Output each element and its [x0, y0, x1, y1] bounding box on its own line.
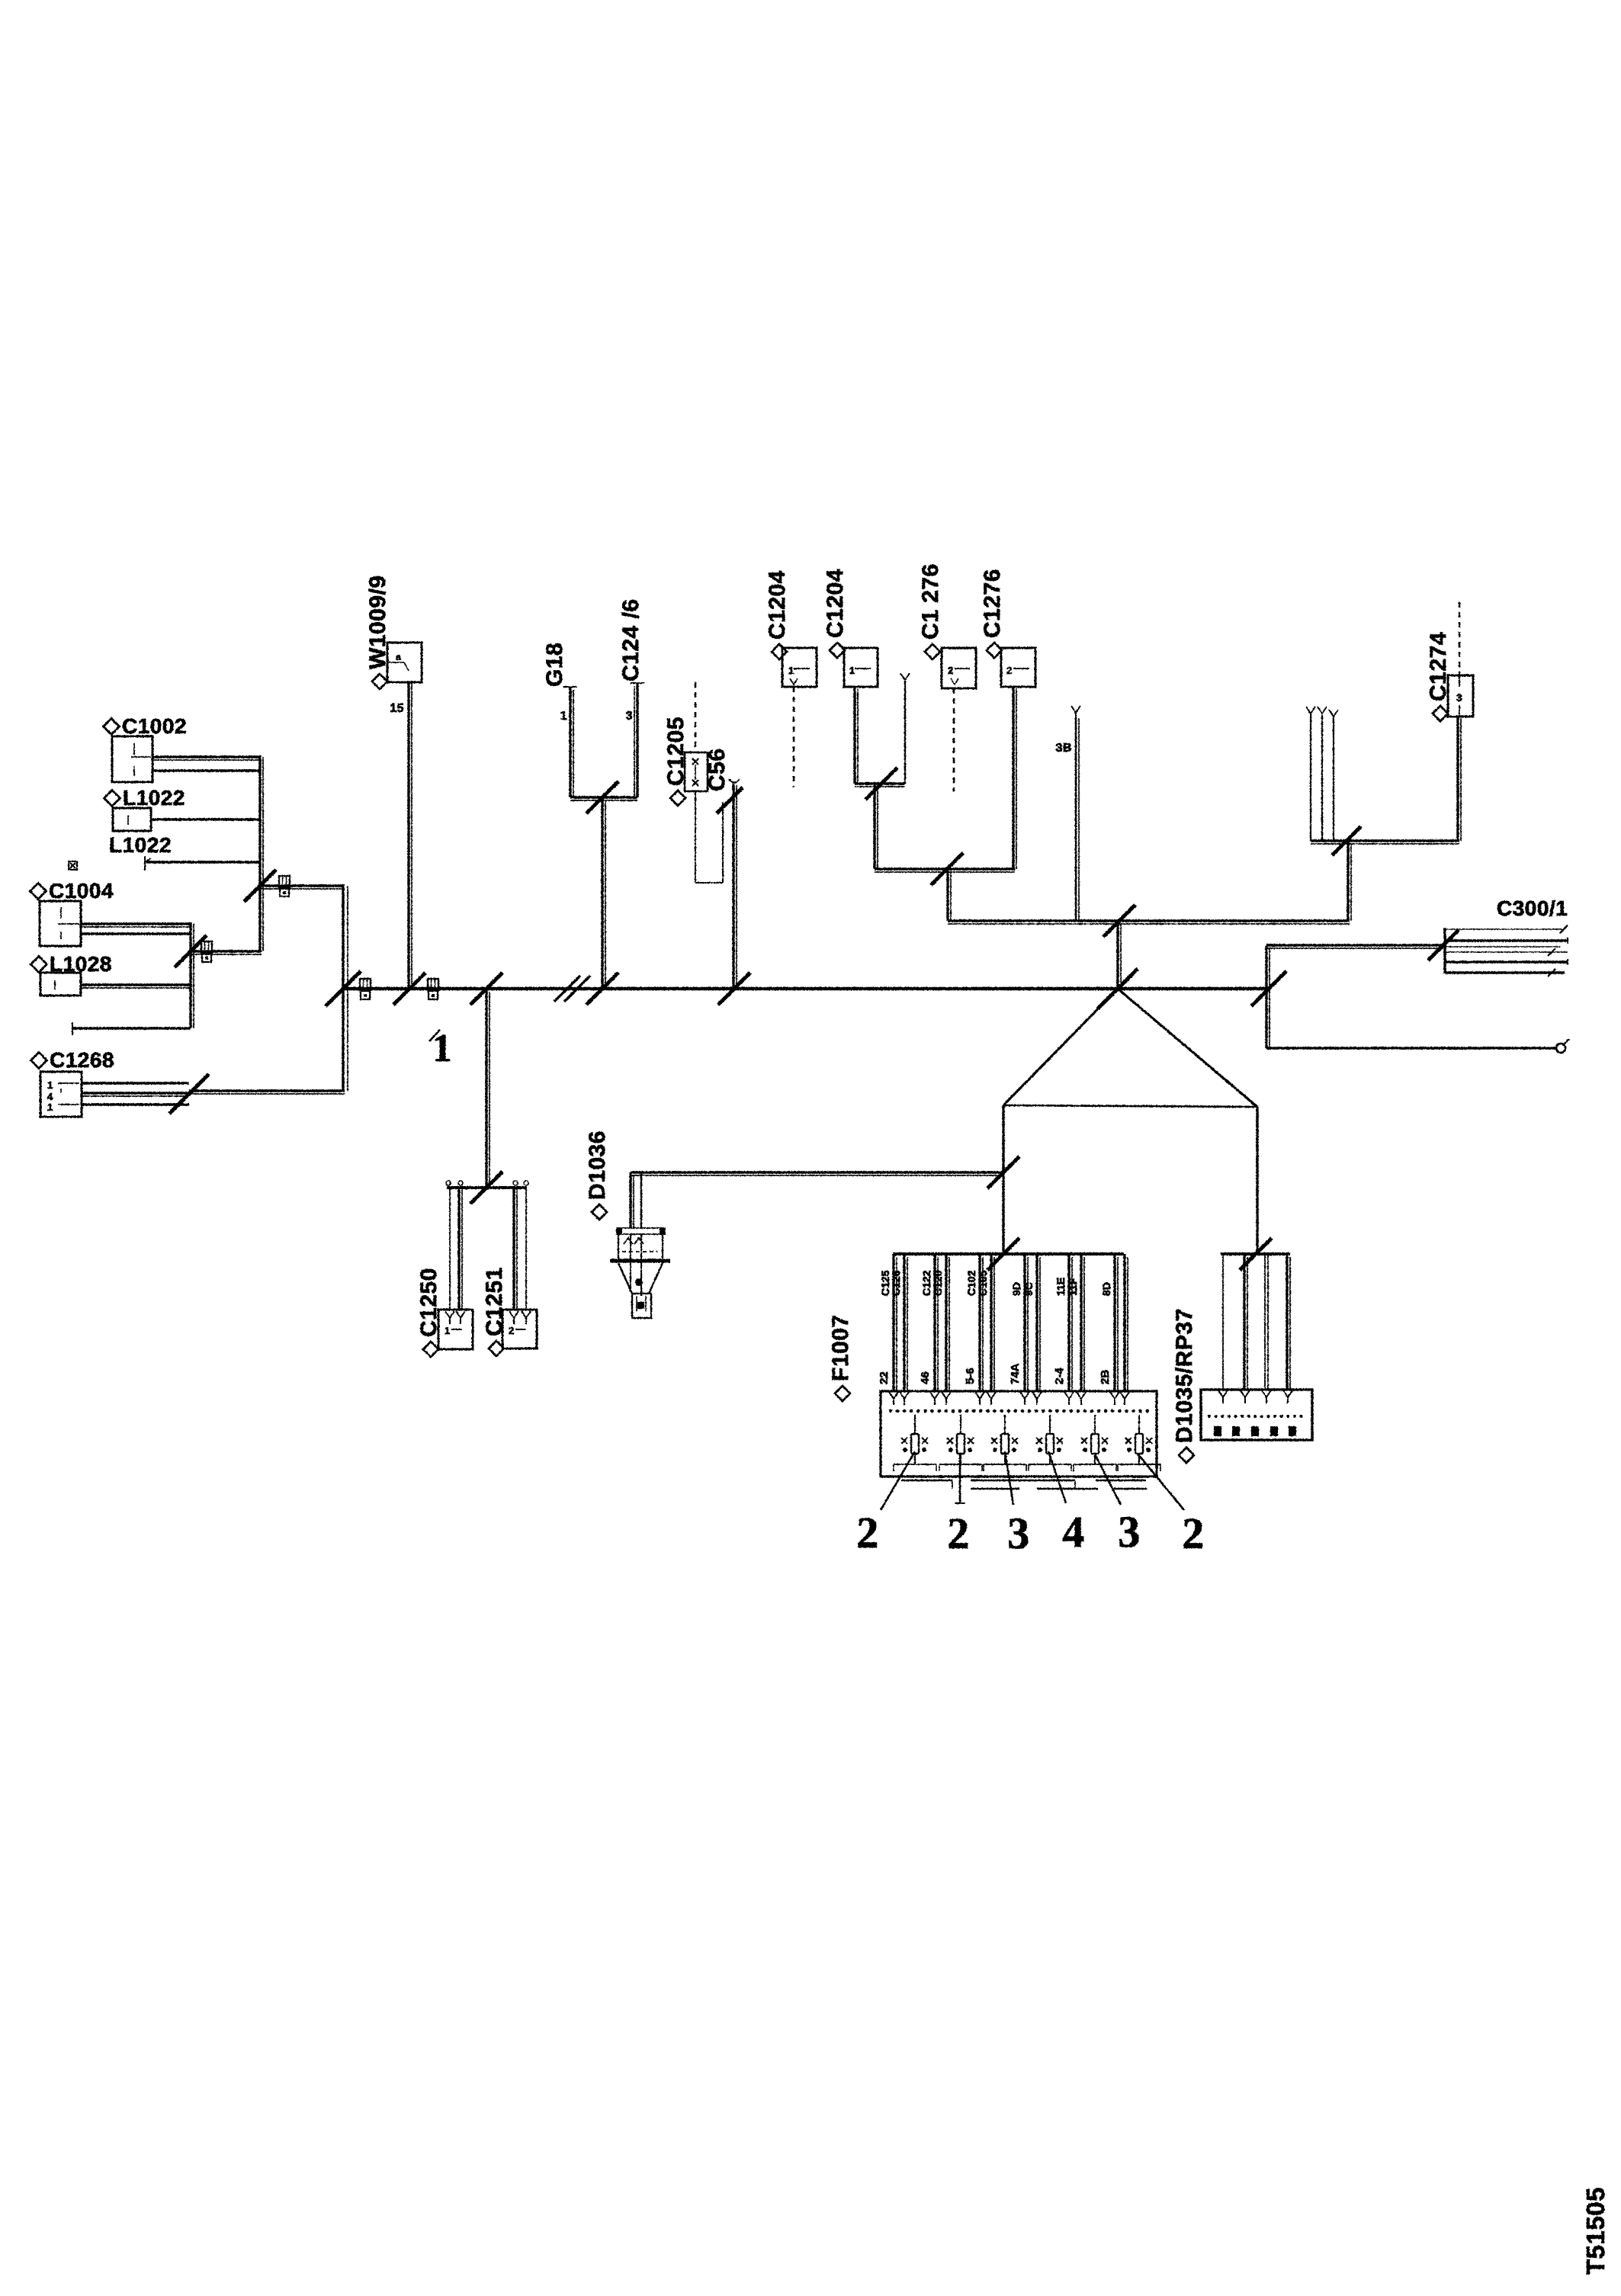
svg-text:22: 22 — [878, 1371, 891, 1384]
splice C1205/C56 — [717, 787, 743, 813]
svg-text:4: 4 — [47, 1091, 53, 1102]
pin 3 label — [626, 710, 633, 723]
wire C1268 pin 3 — [82, 1103, 189, 1105]
connector C1204 second label — [823, 569, 848, 658]
drawing number T51505 — [1581, 2187, 1610, 2275]
branch left drop — [1002, 1105, 1004, 1254]
svg-text:C120: C120 — [932, 1270, 944, 1296]
connector L1022 label — [104, 786, 185, 810]
svg-text:11E: 11E — [1054, 1278, 1067, 1296]
fuse wire labels 4 — [1009, 1282, 1035, 1384]
svg-text:3: 3 — [1118, 1507, 1141, 1557]
svg-text:2: 2 — [509, 1325, 515, 1336]
splice trunk end — [1251, 971, 1286, 1006]
splice drop wire — [470, 973, 502, 1005]
svg-text:C1002: C1002 — [122, 714, 187, 738]
svg-text:G18: G18 — [542, 643, 567, 687]
splice C1204.2 — [865, 768, 897, 800]
wires to C1251 — [514, 1188, 526, 1310]
svg-text:C1276: C1276 — [980, 569, 1005, 638]
fuse wire labels 6 — [1099, 1282, 1112, 1384]
wire lower lead to bus — [73, 1027, 191, 1029]
svg-text:2: 2 — [947, 1509, 970, 1558]
junction splice — [326, 971, 361, 1006]
upper run wire — [1311, 841, 1459, 844]
connector C1205 label — [663, 717, 689, 806]
svg-text:1: 1 — [47, 1079, 53, 1091]
connector C1268 — [40, 1072, 82, 1117]
connector C1276 second — [1001, 648, 1035, 687]
ring terminal — [1556, 1039, 1569, 1053]
leader 2 foot — [955, 1502, 965, 1504]
svg-text:1: 1 — [47, 1102, 53, 1113]
connector D1036 label — [585, 1130, 610, 1220]
svg-text:L1022: L1022 — [123, 786, 185, 810]
splice on bus 2 — [175, 935, 207, 967]
clip — [279, 876, 290, 896]
splice D1036 wire — [987, 1156, 1019, 1188]
fuse wire labels 2 — [919, 1270, 944, 1384]
leader line 4 — [1048, 1451, 1066, 1503]
connector C1204 — [782, 648, 817, 687]
wire bus2 to bus1 — [191, 951, 262, 954]
svg-text:9D: 9D — [1010, 1282, 1022, 1296]
fusebox contact row — [891, 1409, 1148, 1413]
connector C1274 label — [1426, 632, 1451, 721]
bus wire vertical — [260, 755, 263, 951]
crossing marks — [554, 976, 590, 1002]
connector C300/1 — [1445, 925, 1568, 976]
svg-text:C300/1: C300/1 — [1497, 896, 1568, 920]
connector C1268 label — [31, 1048, 115, 1072]
wire C1268 to trunk junction — [189, 1091, 345, 1094]
svg-text:3: 3 — [626, 710, 633, 723]
wire W1009/9 to trunk — [409, 682, 412, 989]
svg-text:2: 2 — [948, 665, 954, 676]
fuse feed wires 3 — [980, 1254, 994, 1390]
wire C124/6 — [631, 683, 644, 797]
fuse 5 — [1074, 1415, 1116, 1471]
wire to lower link — [875, 784, 878, 869]
svg-text:4: 4 — [1062, 1507, 1085, 1557]
svg-text:11F: 11F — [1067, 1278, 1079, 1296]
connector C56 label — [705, 748, 730, 791]
fusebox pin forks — [889, 1392, 1129, 1405]
fuse feed wires 4 — [1025, 1254, 1040, 1390]
callout 3 — [1007, 1509, 1030, 1558]
svg-text:C1204: C1204 — [765, 570, 790, 640]
svg-text:2: 2 — [1006, 665, 1013, 676]
svg-text:C105: C105 — [977, 1270, 989, 1296]
svg-text:2-4: 2-4 — [1053, 1368, 1066, 1384]
wire group to right run — [948, 869, 951, 921]
fuse wire labels 3 — [964, 1270, 989, 1384]
svg-text:8D: 8D — [1100, 1282, 1112, 1296]
connector C1276 — [942, 648, 976, 688]
svg-text:2: 2 — [856, 1508, 879, 1557]
leader line 1 — [881, 1451, 915, 1510]
svg-text:C124 /6: C124 /6 — [618, 598, 644, 681]
long run wire — [948, 921, 1350, 924]
branch diagonal right — [1118, 989, 1257, 1107]
branch right drop — [1256, 1107, 1258, 1254]
ground G18 label — [542, 643, 567, 687]
svg-text:C126: C126 — [890, 1270, 902, 1296]
connector W1009/9 label — [365, 575, 390, 689]
connector C1204 second — [844, 648, 878, 687]
fuse feed wires 2 — [935, 1254, 949, 1390]
svg-text:L1022: L1022 — [109, 833, 172, 857]
relay bar — [1221, 1252, 1290, 1255]
connector C1251 — [502, 1310, 537, 1348]
svg-text:C1004: C1004 — [49, 879, 114, 903]
splice W1009 wire — [393, 973, 425, 1005]
svg-text:2: 2 — [1182, 1509, 1205, 1558]
callout 2 — [1182, 1509, 1205, 1558]
wire C1004 pin a — [81, 924, 191, 927]
connector L1028 label — [31, 952, 112, 976]
relay module D1035/RP37 label — [1172, 1308, 1197, 1463]
splice on long run — [1103, 905, 1135, 937]
wire C1205 dashed — [695, 682, 697, 752]
wire G18 — [563, 687, 577, 797]
relay feed wires — [1223, 1254, 1290, 1390]
wire L1022 to bus — [151, 818, 260, 820]
svg-text:a: a — [396, 652, 401, 662]
svg-text:C102: C102 — [965, 1270, 977, 1296]
header bar — [446, 1181, 528, 1188]
connector C1002 — [112, 736, 152, 782]
wire C1268 pin 4 — [82, 1093, 189, 1096]
wire to ring terminal — [1266, 1047, 1555, 1049]
splice lower link — [931, 853, 963, 885]
svg-text:1: 1 — [560, 710, 567, 723]
wire C1274 dashed — [1459, 602, 1461, 675]
callout 3 — [1118, 1507, 1141, 1557]
lead L1022 label — [109, 833, 172, 857]
svg-text:46: 46 — [919, 1371, 932, 1384]
trunk junction — [1098, 969, 1138, 1009]
connector L1028 — [40, 973, 81, 996]
pin mark C56 — [729, 779, 740, 783]
fusebox F1007 — [881, 1391, 1157, 1477]
connector L1022 — [113, 808, 151, 831]
splice C1268 — [169, 1074, 209, 1114]
fuse feed wires 5 — [1069, 1254, 1084, 1390]
pin 3B label — [1056, 742, 1072, 755]
pin mark L1022 lead — [145, 856, 151, 871]
callout 1 — [432, 1027, 453, 1070]
connector W1009/9 — [387, 643, 422, 682]
connector C1002 label — [104, 714, 188, 738]
connector C1204 label — [765, 570, 790, 659]
connector C1004 — [40, 901, 81, 946]
wire C1268 pin 1 — [82, 1082, 189, 1084]
wire C1276 dashed stub — [953, 688, 955, 791]
splice at fuse bus — [987, 1238, 1019, 1270]
fuse 2 — [939, 1415, 982, 1471]
fusebox F1007 label — [828, 1314, 853, 1401]
fuse 6 — [1118, 1415, 1160, 1471]
svg-text:74A: 74A — [1009, 1363, 1022, 1384]
fuse bus bar — [893, 1252, 1124, 1255]
svg-text:1: 1 — [432, 1027, 453, 1070]
svg-text:3B: 3B — [1056, 742, 1072, 755]
leader line 3 — [1005, 1451, 1013, 1505]
svg-text:5-6: 5-6 — [964, 1368, 977, 1384]
svg-text:F1007: F1007 — [828, 1314, 853, 1381]
svg-text:T51505: T51505 — [1581, 2187, 1610, 2275]
reference mark — [69, 861, 77, 870]
callout 2 — [947, 1509, 970, 1558]
stub 3B — [1071, 706, 1080, 921]
wire D1036 drops — [631, 1172, 641, 1228]
lower link wire — [875, 869, 1015, 872]
connector C1250 label — [416, 1268, 441, 1357]
wire junction riser — [343, 886, 348, 1091]
fuse feed wires 1 — [894, 1254, 907, 1390]
connector C1274 — [1448, 675, 1473, 717]
trunk harness wire — [343, 987, 1269, 991]
splice C56 wire — [718, 973, 750, 1005]
wire C1205 loop — [695, 791, 723, 883]
fuse wire labels 5 — [1053, 1278, 1079, 1384]
connector C1205 — [685, 752, 708, 791]
wire C56 to trunk — [733, 784, 737, 989]
splice at C300/1 — [1428, 930, 1459, 960]
stub wires — [1306, 707, 1338, 841]
connector C1004 label — [30, 879, 114, 903]
callout 4 — [1062, 1507, 1085, 1557]
wire C1204.2 down — [855, 687, 858, 784]
connector C1276 label — [918, 563, 943, 659]
splice G18 wire — [586, 973, 618, 1005]
clip 4 — [428, 979, 438, 999]
wire L1028 to bus — [81, 985, 191, 988]
wire bus to trunk junction — [260, 886, 345, 889]
svg-text:1: 1 — [445, 1325, 451, 1336]
wire C1204 dashed stub — [793, 687, 795, 787]
branch diagonal left — [1003, 989, 1118, 1105]
svg-text:C56: C56 — [705, 748, 730, 791]
fuse 4 — [1029, 1415, 1071, 1471]
riser to upper run — [1348, 841, 1351, 921]
splice on bus — [244, 870, 276, 902]
wire to C300/1 — [1266, 945, 1443, 948]
svg-text:1: 1 — [849, 665, 855, 676]
pin 1 label — [560, 710, 567, 723]
fuse 3 — [984, 1415, 1026, 1471]
wire C1274 down — [1458, 717, 1461, 841]
svg-text:D1035/RP37: D1035/RP37 — [1172, 1308, 1197, 1443]
wires to C1250 — [450, 1188, 462, 1310]
wire C1002 pin b to bus — [152, 769, 260, 771]
stub pin — [900, 673, 910, 784]
relay module D1035/RP37 — [1201, 1390, 1312, 1440]
splice G18/C124 — [586, 781, 618, 813]
pin 15 label — [390, 702, 404, 715]
wire C1004 pin c — [81, 932, 191, 935]
splice at relay bar — [1240, 1238, 1272, 1270]
fuse 1 — [894, 1415, 936, 1471]
connector C300/1 label — [1497, 896, 1568, 920]
riser at trunk end — [1266, 945, 1270, 1048]
connector C1251 label — [482, 1267, 507, 1356]
clip 2 — [201, 941, 212, 962]
connector C124/6 label — [618, 598, 644, 681]
splice at drop — [470, 1172, 502, 1204]
svg-text:C1268: C1268 — [50, 1048, 114, 1072]
under-box wiring — [901, 1480, 1147, 1489]
fuse feed wires 6 — [1115, 1254, 1128, 1390]
wire C1204.2 link — [855, 784, 905, 787]
wire D1036 run — [631, 1172, 1003, 1175]
svg-text:C1 276: C1 276 — [918, 563, 943, 640]
connector C1250 — [438, 1310, 473, 1349]
relay module terminals — [1214, 1426, 1296, 1436]
wire splice to trunk — [602, 797, 605, 989]
fuse wire labels 1 — [878, 1270, 902, 1384]
svg-text:2B: 2B — [1099, 1370, 1112, 1384]
svg-text:9C: 9C — [1022, 1282, 1035, 1296]
leader line 5 — [1094, 1453, 1121, 1505]
callout leader 1 — [429, 1030, 440, 1041]
svg-text:1: 1 — [788, 665, 794, 676]
diode pack D1036 — [610, 1228, 670, 1318]
callout 2 — [856, 1508, 879, 1557]
branch base wire — [1003, 1105, 1257, 1107]
svg-text:15: 15 — [390, 702, 404, 715]
leader line 2 — [959, 1453, 961, 1503]
wire run to trunk junction — [1118, 921, 1121, 989]
bus wire vertical 2 — [191, 922, 194, 1028]
wire L1022 lead to bus — [146, 861, 260, 863]
svg-text:C122: C122 — [920, 1270, 932, 1296]
connector C1276 second label — [980, 569, 1005, 658]
wire trunk drop — [486, 989, 490, 1188]
leader line 6 — [1138, 1454, 1184, 1510]
wire C1002 pin a to bus — [152, 757, 260, 760]
wire C1276.2 down — [1013, 687, 1016, 869]
svg-text:D1036: D1036 — [585, 1130, 610, 1200]
svg-text:3: 3 — [1007, 1509, 1030, 1558]
splice upper run — [1332, 826, 1361, 855]
svg-text:C1204: C1204 — [823, 569, 848, 638]
pin mark lower lead — [72, 1022, 73, 1035]
clip 3 — [360, 979, 371, 999]
wire G18 link — [570, 797, 637, 800]
svg-text:3: 3 — [1456, 691, 1462, 704]
